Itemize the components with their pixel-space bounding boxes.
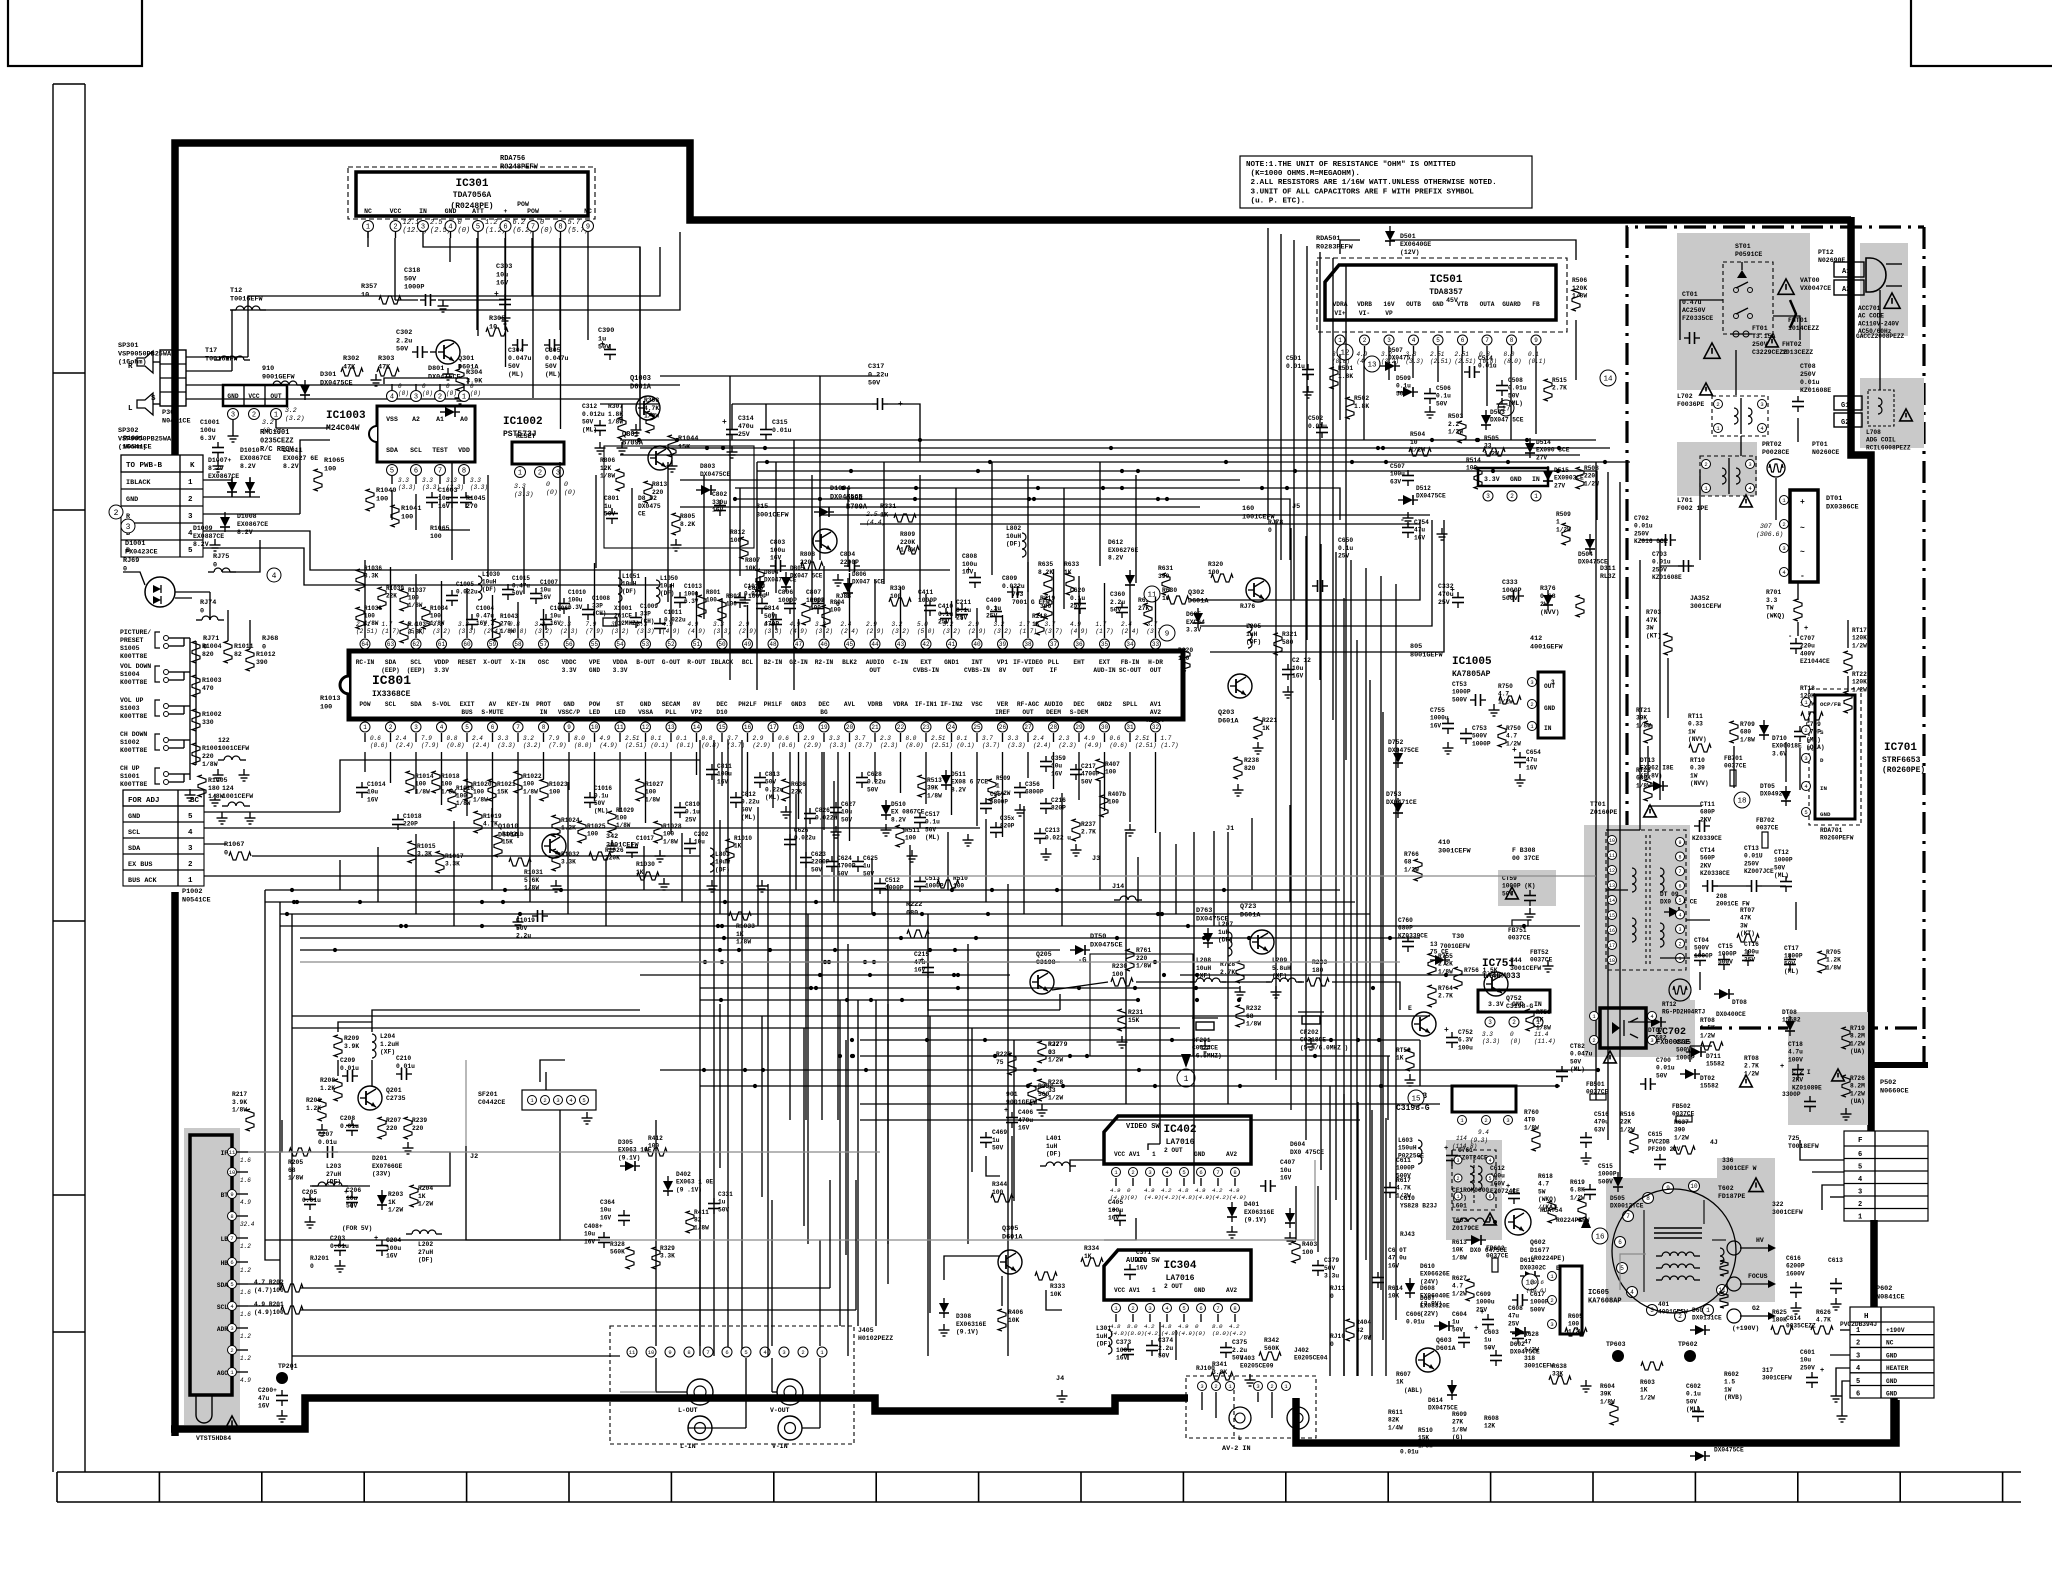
resistor R238 [1233, 757, 1260, 796]
label C606 [1406, 1311, 1425, 1326]
svg-text:(0): (0) [398, 390, 409, 397]
svg-text:22: 22 [897, 724, 905, 731]
capacitor CT53 [1452, 681, 1486, 706]
capacitor C304 [508, 339, 532, 378]
svg-text:3: 3 [1488, 1019, 1492, 1026]
svg-text:3: 3 [414, 394, 418, 402]
svg-text:VIDEO SW: VIDEO SW [1126, 1123, 1160, 1131]
svg-text:OUT: OUT [1544, 683, 1555, 690]
transistor Q603 [1416, 1337, 1456, 1372]
svg-text:1: 1 [1456, 1194, 1459, 1200]
svg-text:RJ43: RJ43 [1400, 1231, 1415, 1238]
svg-text:2.3: 2.3 [1059, 735, 1070, 742]
jumper T12 [230, 287, 266, 310]
svg-text:17: 17 [769, 724, 777, 731]
connector SF201 [478, 1090, 596, 1110]
svg-text:(8.0): (8.0) [1212, 1330, 1229, 1337]
wire scl rail [300, 1180, 856, 1310]
label +190V [1732, 1325, 1759, 1332]
svg-text:3.3: 3.3 [1008, 735, 1019, 742]
svg-text:R809220K1/8W: R809220K1/8W [900, 531, 915, 554]
resistor R510 [937, 875, 968, 890]
svg-text:2: 2 [801, 1349, 804, 1356]
svg-text:VER: VER [997, 701, 1008, 708]
shade ACC701 area [1860, 243, 1908, 336]
connector table TO PWB-B [121, 455, 203, 557]
svg-text:POW: POW [359, 701, 370, 708]
resistor R764 [1428, 985, 1453, 1007]
svg-text:59: 59 [489, 641, 497, 648]
capacitor CT59 [1502, 875, 1536, 920]
resistor R403 [1292, 1241, 1317, 1263]
resistor R1019 [474, 811, 502, 833]
label C603 [1484, 1329, 1502, 1366]
svg-text:NC: NC [1886, 1340, 1894, 1347]
Q753 pins [1452, 1116, 1513, 1151]
transistor Q723 [1240, 903, 1274, 954]
label CF1R0M0000 [1452, 1187, 1489, 1209]
capacitor C317 [862, 363, 903, 410]
svg-text:RESET: RESET [516, 433, 536, 440]
resistor R1026 [589, 847, 624, 862]
thermistor PRT02 [1767, 459, 1785, 477]
label C703 [1652, 551, 1682, 581]
svg-text:ADR: ADR [217, 1326, 228, 1333]
shade L701 area [1677, 442, 1757, 496]
capacitor C408 [584, 1223, 610, 1248]
svg-text:2: 2 [389, 724, 393, 731]
svg-text:11.4: 11.4 [1534, 1031, 1549, 1038]
svg-text:(4.9): (4.9) [1144, 1194, 1161, 1201]
svg-text:1: 1 [1858, 1214, 1862, 1222]
svg-text:2: 2 [1592, 1037, 1595, 1044]
label RT11 [1688, 713, 1711, 752]
svg-text:R-OUT: R-OUT [687, 659, 706, 666]
svg-text:R6264.7K: R6264.7K [1816, 1309, 1831, 1324]
warning vat00 [1778, 279, 1794, 294]
capacitor C1001 [200, 419, 224, 472]
svg-text:8: 8 [558, 224, 562, 232]
svg-text:L-OUT: L-OUT [678, 1407, 698, 1414]
svg-text:RT23680K1/8W: RT23680K1/8W [1636, 767, 1651, 789]
wire av2 verticals [1202, 1392, 1272, 1418]
svg-text:(7.9): (7.9) [586, 628, 604, 635]
capacitor C375 [1220, 1339, 1247, 1362]
resistor R237 [1072, 819, 1096, 841]
svg-text:1: 1 [1856, 1327, 1860, 1335]
resistor R1031 [509, 858, 543, 892]
resistor R304 [455, 369, 484, 404]
capacitor C617 [1512, 1291, 1549, 1313]
svg-text:4.9: 4.9 [240, 1199, 251, 1206]
svg-text:-: - [1488, 1345, 1492, 1353]
wire speaker to P301 [153, 232, 680, 404]
svg-text:3: 3 [1760, 401, 1763, 408]
svg-text:1: 1 [1152, 1287, 1156, 1294]
component L1030 [478, 571, 500, 600]
label Q753 [1396, 1092, 1430, 1113]
svg-text:RT17120K1/2W: RT17120K1/2W [1852, 627, 1867, 649]
svg-text:GND: GND [589, 667, 600, 674]
svg-text:G-OUT: G-OUT [662, 659, 681, 666]
svg-text:2 OUT: 2 OUT [1164, 1147, 1183, 1154]
box around Q801 [604, 446, 754, 548]
svg-text:2.4: 2.4 [1033, 735, 1044, 742]
transistor Q205 [1030, 951, 1086, 994]
resistor R1005 [198, 775, 228, 800]
resistor R1001 [192, 743, 222, 768]
svg-text:FOR ADJ: FOR ADJ [128, 797, 160, 805]
resistor R806 [600, 457, 624, 491]
ground q802 [740, 574, 844, 606]
svg-text:4: 4 [1412, 337, 1416, 344]
resistor R334 [1081, 1245, 1103, 1266]
resistor R705 [1818, 949, 1841, 973]
wire stubs rails up [340, 780, 1290, 926]
svg-text:32.4: 32.4 [240, 1221, 255, 1228]
svg-text:58: 58 [514, 641, 522, 648]
svg-text:+: + [600, 340, 605, 349]
wire F connector feeds [1800, 1140, 1844, 1210]
svg-text:4: 4 [272, 572, 277, 581]
svg-text:G2: G2 [1841, 419, 1849, 427]
svg-text:H-DR: H-DR [1148, 659, 1163, 666]
connector table FOR ADJ [123, 790, 204, 886]
svg-text:(4.2): (4.2) [1144, 1330, 1161, 1337]
svg-text:AUDIO: AUDIO [866, 659, 885, 666]
bridge rectifier DT01 [1780, 490, 1859, 582]
svg-text:SCL: SCL [385, 701, 396, 708]
left margin ruler strip [53, 84, 85, 1472]
label RT10 [1690, 757, 1709, 787]
svg-text:PROT: PROT [536, 701, 551, 708]
capacitor C390 [598, 327, 616, 360]
resistor R750 [1498, 725, 1521, 747]
label CT21 [1792, 1069, 1844, 1112]
resistor R1044 [667, 435, 699, 472]
svg-text:STRF6653: STRF6653 [1882, 756, 1921, 765]
svg-text:1: 1 [363, 724, 367, 731]
resistor R506 [1572, 277, 1587, 311]
label C604 [1452, 1311, 1478, 1348]
svg-text:4.9: 4.9 [1357, 351, 1368, 358]
svg-text:3: 3 [188, 513, 193, 521]
coil L301 [1096, 1325, 1112, 1354]
diode DT50 [1070, 933, 1123, 955]
label R503 [1448, 413, 1466, 443]
svg-text:R: R [128, 363, 133, 371]
svg-text:3.7: 3.7 [982, 735, 993, 742]
svg-text:+: + [1506, 1183, 1510, 1191]
svg-text:(2.9): (2.9) [866, 628, 884, 635]
svg-text:52: 52 [667, 641, 675, 648]
ic Q753 box [1452, 1086, 1516, 1112]
svg-text:A1: A1 [436, 416, 444, 423]
svg-text:5: 5 [1678, 898, 1681, 904]
resistor RT21 [1636, 707, 1652, 743]
svg-text:4: 4 [390, 394, 394, 402]
capacitor C802 [712, 491, 727, 516]
svg-text:(2.4): (2.4) [396, 742, 414, 749]
svg-text:3: 3 [1200, 1383, 1203, 1390]
component R801 [698, 589, 721, 617]
svg-text:(0): (0) [546, 489, 558, 496]
svg-text:0: 0 [470, 383, 474, 390]
svg-text:0: 0 [546, 481, 550, 488]
resistor R226 [996, 1051, 1016, 1075]
svg-text:(EEP): (EEP) [407, 667, 426, 674]
svg-text:(4.9): (4.9) [790, 628, 808, 635]
label D60T [1420, 1295, 1454, 1331]
svg-text:4.2: 4.2 [1212, 1187, 1223, 1194]
svg-text:6: 6 [414, 468, 418, 476]
svg-text:6: 6 [1199, 1169, 1202, 1176]
label R610 [1418, 1427, 1433, 1449]
capacitor C806 [778, 589, 797, 614]
component D804 [755, 569, 797, 596]
node 1 [1177, 1054, 1195, 1087]
IC1002 pins [514, 467, 576, 499]
resistor R1004 [192, 641, 222, 663]
resistor R221 [1254, 717, 1277, 739]
svg-text:5: 5 [1858, 1164, 1862, 1172]
svg-text:2: 2 [230, 1347, 233, 1354]
svg-text:3: 3 [1550, 1321, 1553, 1328]
svg-text:+: + [966, 566, 971, 575]
IC501 dashed outline [1317, 258, 1567, 332]
svg-text:+: + [374, 1235, 378, 1243]
diode D201b [377, 1190, 403, 1214]
svg-text:1.2: 1.2 [240, 1355, 251, 1362]
svg-text:G2-IN: G2-IN [789, 659, 808, 666]
svg-text:(3.2): (3.2) [535, 628, 553, 635]
svg-text:RT22120K1/2W: RT22120K1/2W [1852, 671, 1867, 693]
wire rail r1 [620, 439, 1596, 441]
svg-text:6: 6 [491, 724, 495, 731]
svg-text:(4.9): (4.9) [1195, 1194, 1212, 1201]
resistor R501 [1330, 365, 1353, 389]
ground q203 [1253, 686, 1294, 754]
svg-text:R3084.7K1/8W: R3084.7K1/8W [644, 397, 659, 420]
resistor R755 [1428, 953, 1453, 975]
svg-text:DEC: DEC [716, 701, 727, 708]
svg-text:26: 26 [999, 724, 1007, 731]
resistor R207 [378, 1117, 401, 1139]
label RMC1001 [260, 429, 298, 454]
wire long rail A [757, 461, 1630, 463]
svg-text:+: + [1804, 625, 1808, 633]
resistor R1035 [400, 621, 430, 643]
wire bus horizontal h7 [640, 961, 1060, 963]
svg-text:4.9: 4.9 [1110, 1187, 1121, 1194]
component L1050 [656, 575, 678, 604]
diode D513 [1430, 941, 1450, 965]
svg-text:4.9: 4.9 [240, 1377, 251, 1384]
svg-text:41: 41 [948, 641, 956, 648]
wire bus horizontal h6 [300, 949, 1060, 951]
svg-text:3: 3 [231, 412, 235, 420]
svg-text:7.9: 7.9 [549, 735, 560, 742]
resistor R632 [1138, 597, 1153, 625]
svg-text:OUTA: OUTA [1480, 301, 1495, 308]
svg-text:R7552.2K1/8W: R7552.2K1/8W [1438, 953, 1453, 975]
svg-text:114: 114 [1456, 1135, 1467, 1142]
resistor R511 [896, 825, 920, 847]
svg-text:1.6: 1.6 [240, 1311, 251, 1318]
label R509 [1556, 511, 1571, 545]
component C1011 [654, 609, 686, 634]
component C1005 [446, 581, 478, 606]
component C626 [784, 827, 816, 850]
svg-text:(4.9): (4.9) [600, 742, 618, 749]
svg-text:0.8: 0.8 [702, 735, 713, 742]
capacitor C217 [1070, 763, 1100, 785]
svg-text:17: 17 [1609, 943, 1615, 949]
capacitor C754 [1400, 516, 1448, 541]
svg-text:(1.7): (1.7) [1019, 628, 1037, 635]
svg-text:8: 8 [1233, 1305, 1236, 1312]
svg-text:6: 6 [725, 1349, 728, 1356]
resistor R344 [991, 1181, 1013, 1202]
svg-text:3: 3 [414, 724, 418, 731]
diode D801 [428, 365, 461, 417]
component C1016 [584, 785, 612, 815]
wire rail r7 [860, 523, 1420, 525]
transistor Q301 [436, 340, 479, 371]
svg-text:R2372.7K: R2372.7K [1081, 821, 1096, 836]
svg-text:1: 1 [1534, 493, 1538, 500]
wire bus bottom h1 [860, 1039, 1420, 1041]
resistor R404 [1346, 1319, 1371, 1342]
wire bus mid verticals [1330, 1086, 1386, 1376]
node 11 [1144, 586, 1160, 602]
svg-text:2: 2 [1550, 1297, 1553, 1304]
svg-text:7: 7 [1485, 337, 1489, 344]
svg-text:29: 29 [1075, 724, 1083, 731]
svg-text:46: 46 [820, 641, 828, 648]
svg-text:5: 5 [1182, 1169, 1185, 1176]
capacitor C650 [1312, 537, 1353, 592]
ic IC605 box [1560, 1266, 1622, 1334]
svg-text:12: 12 [1609, 868, 1615, 874]
resistor R813 [644, 481, 667, 503]
label RJ11 [1330, 1285, 1345, 1300]
svg-text:18: 18 [1737, 798, 1746, 806]
svg-text:11: 11 [229, 1149, 236, 1156]
optocoupler IC702 [1590, 1008, 1657, 1048]
wire verticals below ic801 [840, 1000, 876, 1326]
svg-text:1: 1 [366, 224, 370, 232]
svg-text:24: 24 [948, 724, 956, 731]
wire j405 jacks [656, 1358, 820, 1428]
capacitor C1018 [392, 813, 422, 830]
svg-text:9: 9 [586, 224, 590, 232]
label C607-8 [1372, 1247, 1407, 1288]
diode D603 [1690, 1307, 1722, 1335]
diode DT08 [1714, 989, 1747, 1018]
svg-text:0.1: 0.1 [651, 735, 662, 742]
svg-text:SECAM: SECAM [662, 701, 681, 708]
svg-text:2: 2 [1131, 1305, 1134, 1312]
svg-text:J1: J1 [1226, 825, 1234, 833]
svg-text:TP602: TP602 [1678, 1341, 1698, 1348]
svg-text:TP201: TP201 [278, 1363, 298, 1370]
svg-text:1: 1 [274, 412, 278, 420]
svg-text:CVBS-IN: CVBS-IN [913, 667, 939, 674]
svg-text:1.2: 1.2 [240, 1243, 251, 1250]
label FB751 [1508, 920, 1531, 942]
label D802 [638, 495, 661, 518]
svg-text:(3.2): (3.2) [994, 628, 1012, 635]
svg-text:SC-OUT: SC-OUT [1119, 667, 1142, 674]
svg-text:(4.7)100: (4.7)100 [254, 1287, 284, 1294]
svg-text:SPLL: SPLL [1123, 701, 1138, 708]
svg-text:AV2: AV2 [1150, 709, 1161, 716]
svg-text:A2: A2 [1842, 286, 1850, 294]
svg-text:(3.3): (3.3) [470, 484, 488, 491]
diode D1010 [227, 477, 237, 497]
capacitor C207 [318, 1131, 338, 1158]
capacitor C513 [914, 875, 944, 892]
shade T602 flyback area [1606, 1178, 1775, 1302]
wire bus bottom h4 [700, 1085, 1560, 1087]
capacitor C814 [764, 605, 782, 630]
testpoint TP603 [1606, 1341, 1626, 1362]
ic IC701 STRF6653 inner box [1802, 695, 1856, 819]
svg-text:1013CEZZ: 1013CEZZ [1782, 349, 1813, 356]
svg-text:3.3V: 3.3V [434, 667, 449, 674]
svg-text:2: 2 [438, 394, 442, 402]
svg-text:4: 4 [440, 724, 444, 731]
box around CF201 section [1090, 954, 1193, 1056]
svg-text:9: 9 [1534, 337, 1538, 344]
coil L207 [1218, 921, 1233, 956]
wire bus from tables [300, 440, 950, 585]
svg-text:R2081.2K: R2081.2K [320, 1077, 335, 1092]
svg-text:GND: GND [1510, 476, 1522, 483]
svg-text:3.2: 3.2 [523, 735, 534, 742]
label R619 [1570, 1179, 1586, 1221]
svg-text:KA7805AP: KA7805AP [1452, 670, 1491, 679]
resistor R239 [403, 1117, 428, 1154]
svg-text:RDAT54: RDAT54 [1540, 1207, 1563, 1214]
label RJ76 [1240, 603, 1255, 610]
capacitor C331 [708, 1191, 733, 1214]
svg-text:21: 21 [871, 724, 879, 731]
svg-text:4.9: 4.9 [1144, 1187, 1155, 1194]
svg-text:VCC: VCC [390, 208, 402, 215]
svg-text:PLL: PLL [665, 709, 676, 716]
wire long rail C [735, 488, 1340, 520]
svg-text:12: 12 [642, 724, 650, 731]
label IC702 [1656, 1027, 1690, 1047]
svg-text:0.6: 0.6 [370, 735, 381, 742]
wire bus bottom h2 [860, 1055, 1390, 1057]
component L1051 [618, 573, 640, 602]
component C35x [990, 815, 1015, 838]
label J4 [1056, 1375, 1068, 1402]
capacitor C753 [1460, 725, 1491, 747]
resistor R1015 [408, 841, 436, 863]
wire gray bus 1 [300, 961, 1400, 963]
label R628 [1524, 1331, 1539, 1353]
svg-text:TDA7056A: TDA7056A [453, 191, 492, 200]
jack V-IN [772, 1416, 802, 1450]
label CT01 [1682, 291, 1713, 322]
label C702 [1634, 515, 1668, 545]
svg-text:OUT: OUT [1150, 667, 1161, 674]
svg-text:HV: HV [1756, 1237, 1764, 1244]
